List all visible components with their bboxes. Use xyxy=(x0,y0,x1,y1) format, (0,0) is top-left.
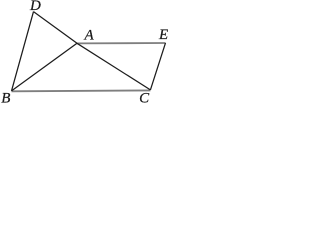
svg-text:A: A xyxy=(84,27,95,43)
svg-text:B: B xyxy=(1,91,10,104)
svg-text:E: E xyxy=(158,27,168,43)
svg-text:C: C xyxy=(139,91,150,104)
svg-text:D: D xyxy=(29,0,41,14)
